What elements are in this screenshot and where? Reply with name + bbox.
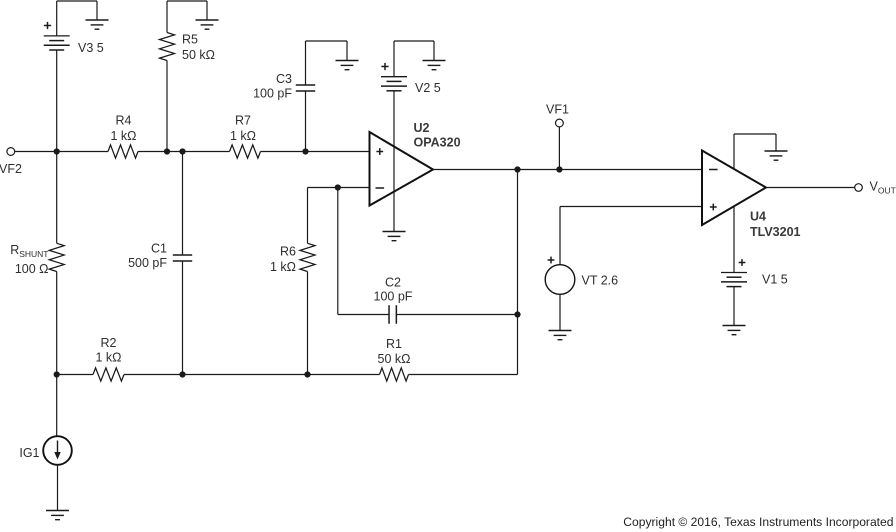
svg-text:V3 5: V3 5 xyxy=(78,41,104,55)
svg-text:100 Ω: 100 Ω xyxy=(15,262,49,276)
svg-text:R4: R4 xyxy=(116,114,132,128)
svg-text:R6: R6 xyxy=(280,245,296,259)
svg-text:V1 5: V1 5 xyxy=(762,273,788,287)
svg-text:OPA320: OPA320 xyxy=(414,136,461,150)
svg-text:R2: R2 xyxy=(101,336,117,350)
svg-text:IG1: IG1 xyxy=(19,446,39,460)
svg-text:U4: U4 xyxy=(750,210,766,224)
svg-text:R5: R5 xyxy=(182,33,198,47)
svg-text:C1: C1 xyxy=(151,242,167,256)
svg-text:C3: C3 xyxy=(276,72,292,86)
svg-text:U2: U2 xyxy=(414,121,430,135)
svg-text:VF1: VF1 xyxy=(546,103,569,117)
svg-text:1 kΩ: 1 kΩ xyxy=(95,351,121,365)
svg-text:100 pF: 100 pF xyxy=(374,290,413,304)
svg-text:100 pF: 100 pF xyxy=(253,87,292,101)
svg-text:50 kΩ: 50 kΩ xyxy=(378,352,411,366)
svg-text:1 kΩ: 1 kΩ xyxy=(110,129,136,143)
svg-text:1 kΩ: 1 kΩ xyxy=(230,129,256,143)
svg-text:500 pF: 500 pF xyxy=(128,256,167,270)
svg-text:1 kΩ: 1 kΩ xyxy=(270,260,296,274)
svg-text:TLV3201: TLV3201 xyxy=(750,225,801,239)
svg-text:50 kΩ: 50 kΩ xyxy=(182,48,215,62)
svg-text:Copyright © 2016, Texas Instru: Copyright © 2016, Texas Instruments Inco… xyxy=(623,515,893,529)
svg-text:V2 5: V2 5 xyxy=(415,81,441,95)
svg-text:R7: R7 xyxy=(235,114,251,128)
svg-text:C2: C2 xyxy=(385,276,401,290)
svg-text:VF2: VF2 xyxy=(0,162,22,176)
svg-text:VT 2.6: VT 2.6 xyxy=(582,274,619,288)
svg-text:R1: R1 xyxy=(386,337,402,351)
